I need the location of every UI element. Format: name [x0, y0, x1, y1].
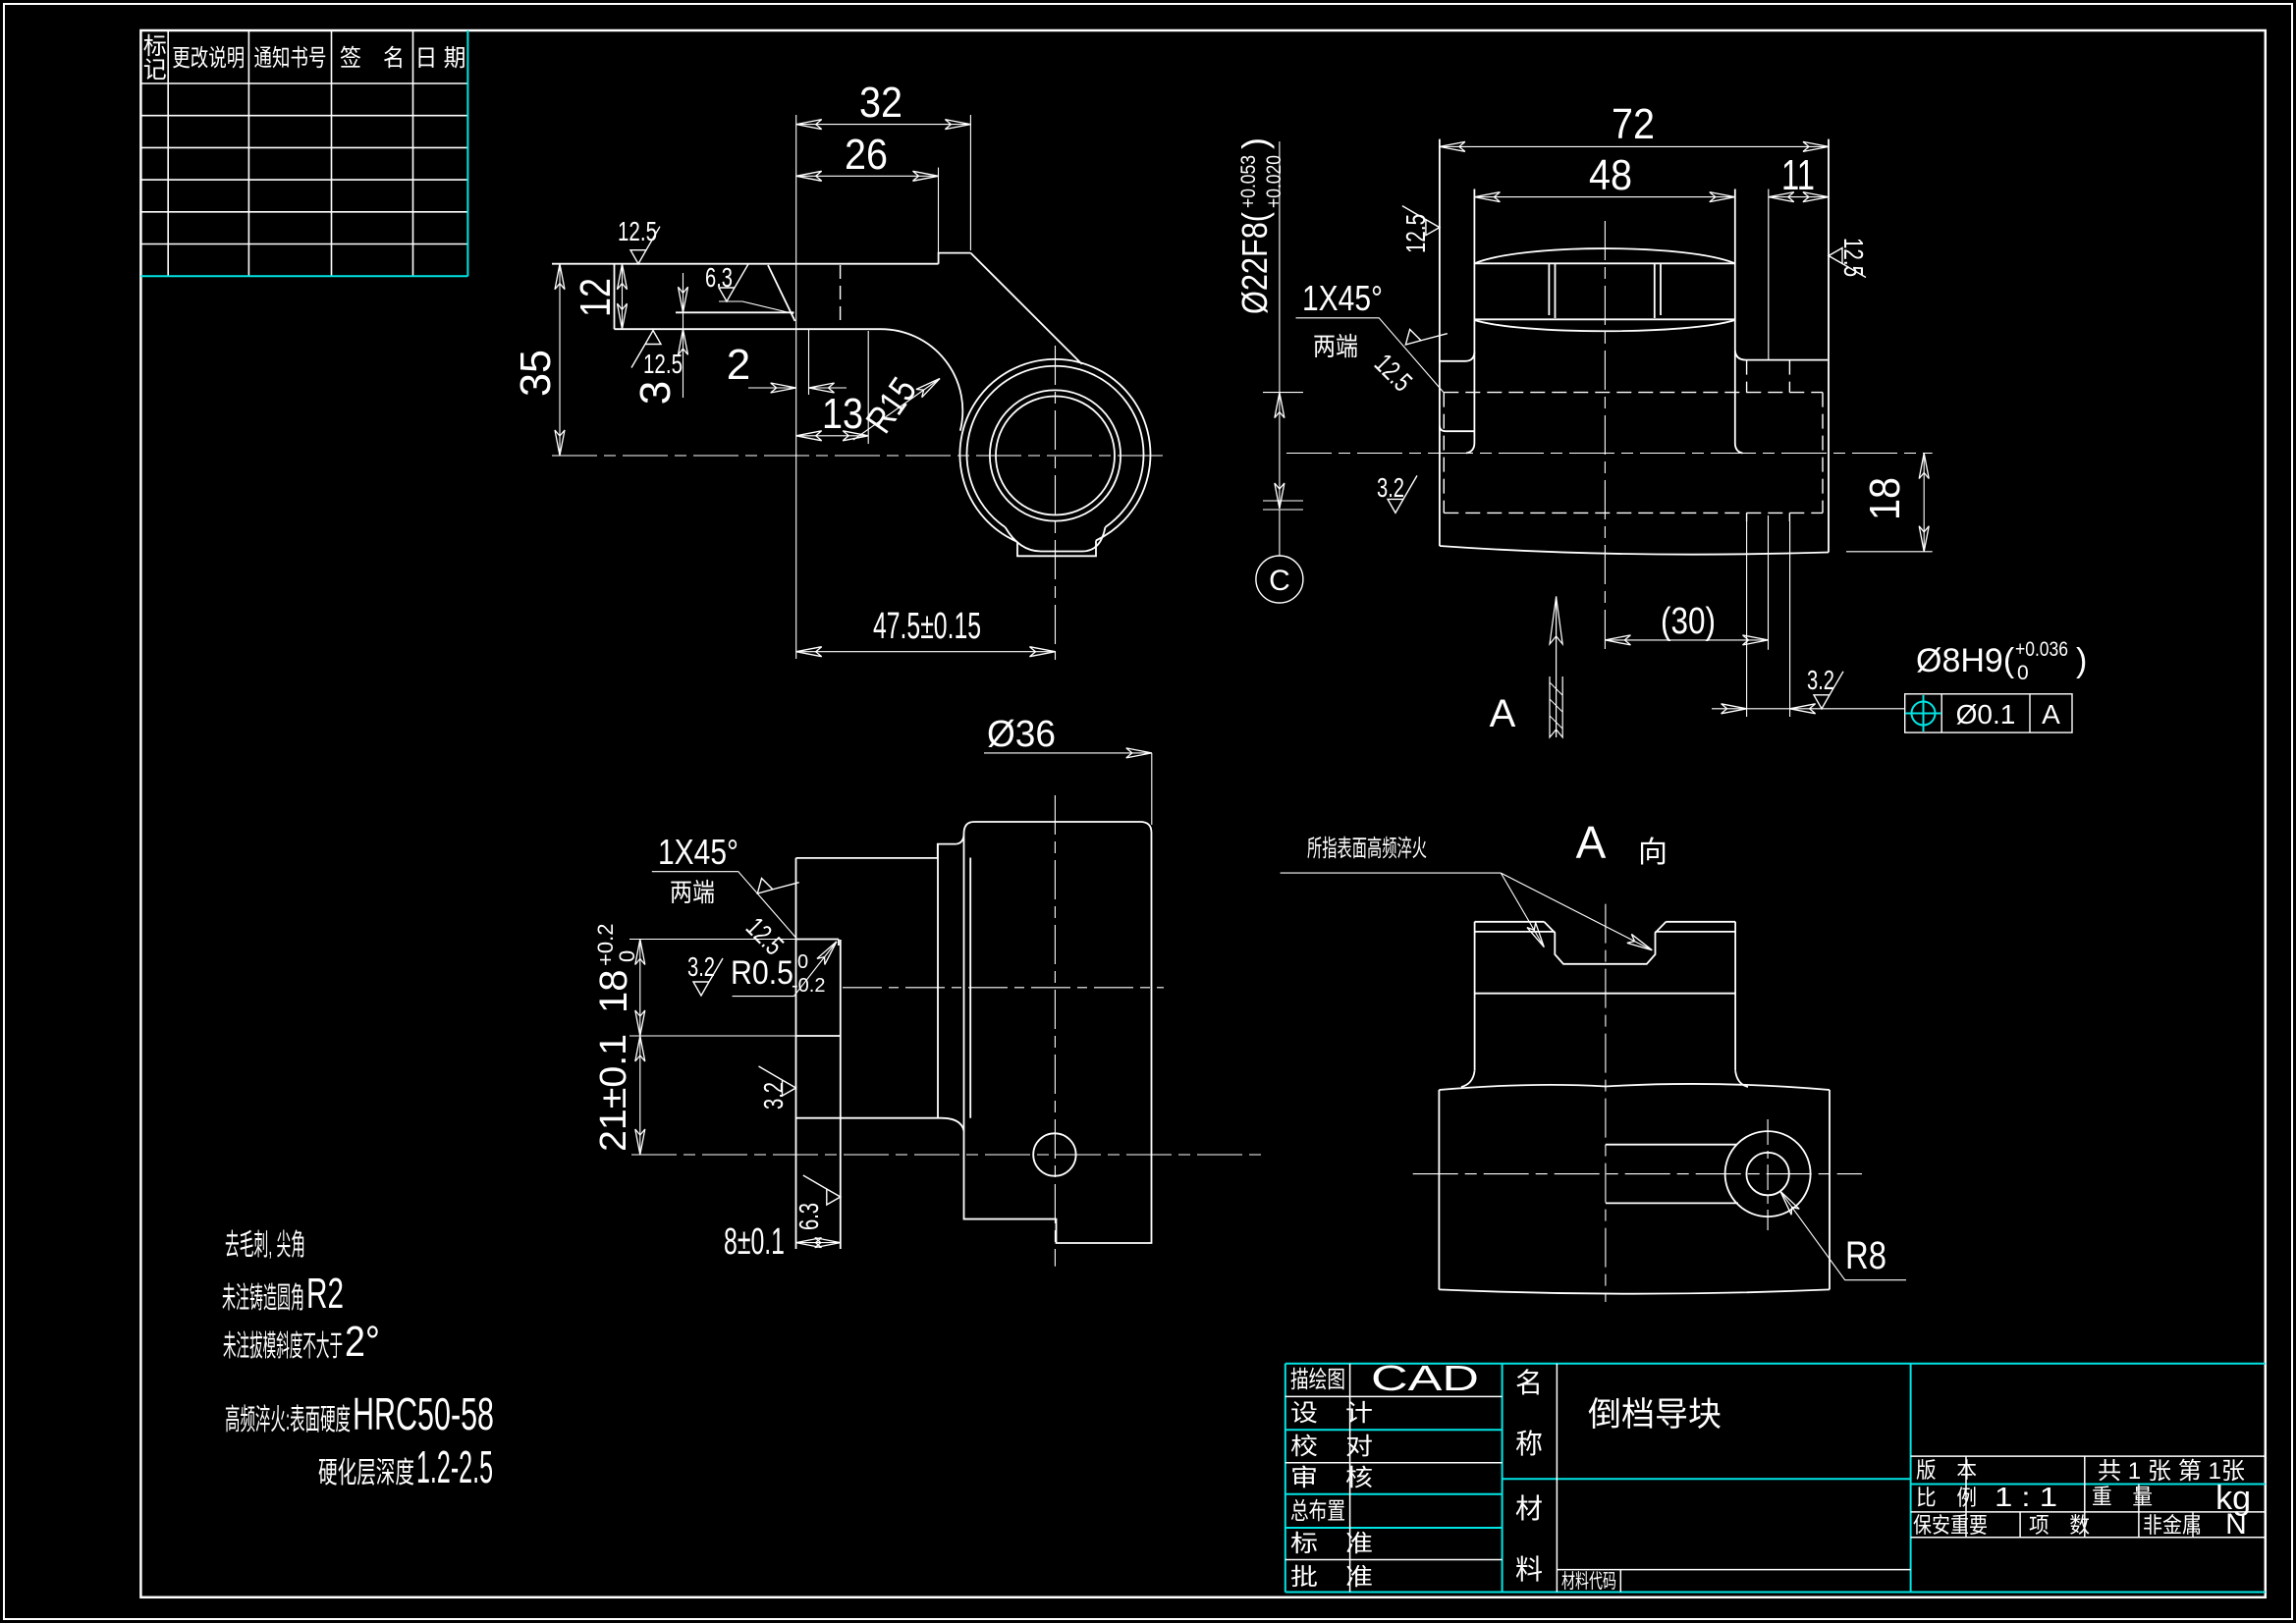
wire: inverted crown	[1474, 320, 1734, 331]
svg-text:12.5: 12.5	[1838, 238, 1869, 277]
wire: cylinder crown	[1474, 248, 1734, 263]
roughness 3.2 left edge view3	[759, 1066, 796, 1096]
svg-text:2: 2	[727, 341, 750, 389]
svg-text:总布置: 总布置	[1290, 1498, 1345, 1525]
roughness 3.2 upper view3	[693, 958, 723, 996]
svg-text:版 本: 版 本	[1916, 1458, 1977, 1483]
wire: o22 ticks	[1263, 393, 1303, 510]
wire: left outer edge	[1439, 139, 1441, 546]
svg-text:1X45°: 1X45°	[1302, 278, 1383, 318]
svg-text:26: 26	[845, 131, 888, 179]
fillet neck-left bottom	[1466, 443, 1474, 454]
svg-text:标 准: 标 准	[1290, 1531, 1373, 1557]
hole o8	[1746, 1153, 1788, 1195]
wire: ext line x810.7	[795, 115, 797, 659]
arrows dim3	[679, 287, 688, 312]
wire: slot top wall	[796, 940, 839, 947]
hidden: hole top	[1444, 392, 1823, 394]
VIEW1 top-left side view	[552, 253, 1150, 557]
svg-text:比 例: 比 例	[1916, 1486, 1977, 1510]
hidden: hole bottom	[1444, 512, 1823, 514]
fillet neck-right to ledge	[1735, 351, 1746, 360]
centerline horizontal boss	[552, 455, 1169, 457]
svg-text:非金属: 非金属	[2143, 1513, 2202, 1538]
arrows dim72	[1440, 141, 1465, 151]
svg-text:21±0.1: 21±0.1	[593, 1034, 634, 1152]
wire: block mid line	[1475, 993, 1736, 995]
arrows 18	[635, 940, 645, 965]
wire: ext line x988.4	[969, 115, 971, 250]
svg-text:72: 72	[1612, 100, 1655, 148]
wire: flange underside left horizontal	[1440, 352, 1475, 361]
svg-text:48: 48	[1589, 151, 1632, 199]
boss chamfer circle	[990, 390, 1121, 520]
wire: slot walls	[1549, 263, 1661, 318]
wire: lower bottom edge	[1439, 1289, 1830, 1293]
wire: ledge top surface	[1746, 359, 1828, 361]
dim 47.5	[796, 651, 1056, 653]
label R8	[1780, 1191, 1906, 1280]
svg-text:47.5±0.15: 47.5±0.15	[873, 606, 981, 647]
node: title block left labels	[1290, 1367, 1373, 1591]
svg-text:所指表面高频淬火: 所指表面高频淬火	[1307, 836, 1427, 862]
wire: step up to ledge	[939, 253, 971, 264]
wire: flares	[1461, 1070, 1748, 1087]
arrows dim2	[771, 383, 796, 393]
position symbol	[1905, 695, 1941, 731]
wire: end-face bottom line	[1474, 318, 1734, 320]
wire: neck right edge	[1734, 189, 1736, 444]
arrows dim30	[1605, 635, 1630, 645]
wire: ext 18 dims	[629, 940, 796, 1037]
dim 18 vertical	[639, 940, 641, 1037]
wire: material-code box	[1557, 1570, 1910, 1593]
dim 32	[796, 124, 971, 126]
arrows dim o8 outside	[1722, 704, 1747, 714]
dim o8	[1712, 708, 1905, 710]
svg-text:R8: R8	[1845, 1234, 1886, 1277]
svg-text:13: 13	[822, 390, 863, 438]
svg-text:18: 18	[592, 970, 635, 1014]
roughness 3.2 on o8 dim	[1814, 672, 1843, 709]
wire: right outer edge	[1828, 139, 1830, 553]
wire: lower top edge	[1439, 1084, 1830, 1090]
wire: left edge	[795, 858, 797, 1249]
svg-text:材料代码: 材料代码	[1561, 1570, 1616, 1593]
arrows o36	[1126, 748, 1152, 758]
VIEW2 top-right front view	[1440, 139, 1829, 555]
svg-text:两端: 两端	[670, 878, 715, 907]
svg-text:3.2: 3.2	[1807, 665, 1834, 695]
wire: top edges	[1475, 921, 1736, 923]
svg-text:日 期: 日 期	[415, 45, 466, 72]
svg-text:1X45°: 1X45°	[658, 832, 738, 872]
boss bottom pad outer	[1017, 541, 1096, 557]
wire: ext o36	[1151, 753, 1153, 825]
svg-text:12.5: 12.5	[1400, 214, 1431, 253]
leader 6.3	[719, 301, 793, 314]
boss arc R8	[1725, 1131, 1811, 1217]
roughness 12.5 right edge	[1829, 248, 1866, 278]
dim 48	[1474, 196, 1734, 198]
arrows dim11	[1769, 192, 1794, 202]
wire: lower rect sides	[1439, 1090, 1830, 1289]
svg-text:向: 向	[1638, 837, 1667, 869]
centerline vertical boss	[1055, 346, 1057, 660]
wire: right section lines	[1911, 1456, 2266, 1538]
svg-text:A: A	[1490, 692, 1516, 735]
arrows 21	[635, 1036, 645, 1061]
wire: 3 dim line	[683, 273, 684, 398]
svg-text:描绘图: 描绘图	[1290, 1367, 1345, 1393]
dim 11	[1769, 196, 1829, 198]
svg-text:0: 0	[797, 951, 808, 973]
arrows 8	[796, 1238, 822, 1248]
svg-text:+0.053: +0.053	[1237, 155, 1260, 208]
wire: groove ramp	[768, 265, 795, 321]
arrows dim13	[796, 431, 822, 441]
arrows dim47.5	[796, 647, 822, 657]
roughness 12.5 left edge	[1402, 206, 1440, 236]
node: right section texts	[1913, 1458, 2202, 1538]
arrows dim48	[1474, 192, 1500, 202]
fillet neck-right bottom	[1735, 443, 1743, 454]
svg-text:12.5: 12.5	[643, 349, 683, 379]
svg-text:12: 12	[572, 278, 620, 317]
roughness 3.2 left	[1388, 475, 1417, 513]
boss bottom pad inner	[1006, 527, 1106, 552]
dim 26	[796, 175, 939, 177]
svg-text:去毛刺, 尖角: 去毛刺, 尖角	[225, 1229, 305, 1262]
wire: block sides	[1475, 922, 1736, 1071]
svg-text:0: 0	[2017, 662, 2029, 684]
centerline: slab vertical	[1054, 795, 1056, 1267]
svg-text:Ø36: Ø36	[987, 714, 1056, 755]
boss outer circle with bottom pad cut	[959, 359, 1150, 542]
wire: chamfer slant to boss	[970, 253, 1081, 364]
wire: table horizontals	[140, 30, 467, 244]
wire: name/material divider	[1556, 1364, 1558, 1593]
svg-text:名: 名	[1515, 1368, 1543, 1398]
leader 1x45 view3	[652, 872, 796, 938]
svg-text:标: 标	[143, 33, 167, 60]
dim 18	[1923, 454, 1925, 552]
svg-text:): )	[2076, 642, 2087, 679]
wire: table verticals	[140, 30, 412, 276]
tolerance frame	[1905, 694, 2072, 732]
arrow R15 leader	[916, 374, 943, 397]
svg-text:-0.2: -0.2	[792, 975, 825, 997]
wire: 35 dim line	[559, 264, 561, 456]
svg-text:CAD: CAD	[1371, 1358, 1479, 1398]
svg-text:6.3: 6.3	[705, 262, 733, 293]
wire: table cyan edges	[140, 30, 467, 276]
centerline: slot axis	[843, 987, 1164, 989]
svg-text:+0.020: +0.020	[1263, 155, 1285, 208]
svg-text:18: 18	[1861, 477, 1909, 520]
title block	[1285, 1364, 2266, 1593]
wire: bottom edge	[1440, 546, 1829, 555]
wire: slot bottom step	[796, 1035, 841, 1037]
svg-text:32: 32	[859, 79, 902, 127]
roughness 12.5 on leader view3	[752, 861, 799, 908]
arrows dim12	[618, 264, 628, 290]
wire: top surface	[796, 857, 939, 859]
svg-text:设 计: 设 计	[1290, 1400, 1373, 1427]
dim 2	[748, 387, 847, 389]
svg-text:更改说明: 更改说明	[172, 45, 245, 72]
wire: left edge	[614, 264, 616, 330]
VIEW4 A-direction view	[1439, 922, 1830, 1294]
wire: end-face top line	[1474, 262, 1734, 264]
dim o36	[984, 752, 1152, 754]
svg-text:Ø22F8(: Ø22F8(	[1234, 212, 1275, 314]
wire: flange underside left + fillet	[1440, 426, 1475, 432]
arrows dim32	[796, 120, 822, 130]
svg-text:3: 3	[631, 381, 680, 405]
wire: chamfer line	[1475, 931, 1736, 933]
wire: 12 dim line	[622, 264, 624, 330]
wire: ext 13dim	[867, 331, 869, 444]
wire: ext 11 left	[1768, 189, 1770, 360]
svg-text:A: A	[2042, 699, 2060, 730]
hidden hole lines	[1444, 360, 1823, 521]
centerline: vertical mid	[1604, 221, 1606, 650]
wire: mid vertical b	[969, 858, 971, 1118]
svg-text:C: C	[1269, 565, 1290, 597]
dim 72	[1440, 145, 1829, 147]
svg-text:两端: 两端	[1313, 332, 1358, 361]
leader R0.5	[733, 942, 837, 997]
VIEW3 bottom-left view	[796, 822, 1152, 1249]
hole o8 circle	[1033, 1133, 1075, 1175]
svg-text:A: A	[1576, 817, 1607, 868]
wire: ext line x955.5	[938, 168, 940, 252]
svg-text:1 : 1: 1 : 1	[1995, 1482, 2057, 1512]
dim 21 vertical	[639, 1036, 641, 1155]
centerline: hole vertical	[1767, 1119, 1769, 1230]
dim 13	[796, 435, 869, 437]
hidden groove line dashed	[840, 265, 842, 324]
svg-text:+0.036: +0.036	[2015, 638, 2068, 661]
arrows dim35	[555, 264, 565, 290]
wire: notch right edge	[840, 940, 842, 1249]
node: name/material column	[1515, 1368, 1543, 1585]
svg-text:3.2: 3.2	[1377, 472, 1404, 503]
svg-text:Ø8H9(: Ø8H9(	[1916, 642, 2015, 679]
boss slab outline	[957, 822, 1152, 1243]
svg-text:35: 35	[512, 350, 560, 397]
svg-text:校 对: 校 对	[1290, 1434, 1373, 1460]
svg-text:保安重要: 保安重要	[1913, 1513, 1988, 1538]
centerline: view4 vertical	[1605, 904, 1607, 1302]
svg-text:R0.5: R0.5	[731, 954, 793, 992]
roughness 6.3 view3	[803, 1175, 841, 1205]
leader R15	[853, 379, 940, 441]
hole circle	[996, 397, 1115, 515]
svg-text:审 核: 审 核	[1290, 1465, 1373, 1491]
roughness 12.5 under step	[631, 331, 661, 368]
svg-text:6.3: 6.3	[793, 1203, 824, 1230]
boss second circle	[967, 366, 1144, 527]
roughness 12.5 on top surface	[630, 227, 660, 264]
svg-text:Ø0.1: Ø0.1	[1956, 699, 2016, 730]
hidden: hole right end	[1822, 393, 1824, 514]
svg-text:): )	[1234, 137, 1275, 149]
roughness 12.5 on 1x45 leader	[1400, 312, 1448, 359]
dim 8	[796, 1242, 841, 1244]
wire: ext 18 bottom	[1846, 551, 1933, 553]
svg-text:项 数: 项 数	[2029, 1513, 2090, 1538]
revision table	[140, 30, 467, 276]
svg-text:0: 0	[615, 950, 639, 962]
svg-text:3.2: 3.2	[687, 951, 715, 982]
svg-text:3.2: 3.2	[758, 1082, 789, 1109]
node: revision table headers	[143, 33, 466, 83]
svg-text:批 准: 批 准	[1290, 1564, 1373, 1591]
label o22F8 vertical	[1234, 137, 1285, 314]
arrows dim18	[1919, 454, 1929, 479]
fillet R15	[881, 329, 962, 431]
wire: ext 30 right	[1768, 515, 1770, 650]
svg-text:材: 材	[1515, 1493, 1543, 1524]
hidden: hole left end	[1443, 393, 1445, 514]
dim 30	[1605, 639, 1768, 641]
wire: slab shelf	[964, 1218, 1057, 1220]
centerline: hole axis	[631, 1154, 1265, 1156]
roughness 6.3 groove	[719, 264, 748, 301]
svg-text:11: 11	[1781, 151, 1815, 199]
arrows dim26	[796, 171, 822, 181]
wire: step surface	[615, 328, 882, 330]
svg-text:重 量: 重 量	[2092, 1485, 2153, 1509]
svg-text:通知书号: 通知书号	[254, 45, 327, 72]
wire: notch	[1544, 922, 1666, 964]
wire: groove bottom line	[676, 311, 794, 313]
svg-text:记: 记	[143, 57, 167, 83]
wire: title block cyan outline	[1285, 1364, 2266, 1593]
svg-text:N: N	[2225, 1508, 2247, 1541]
wire: ext 2dim	[808, 329, 810, 395]
wire: mid vertical a	[938, 844, 957, 1118]
hidden: small hole sides	[1747, 360, 1790, 521]
datum C	[1256, 556, 1303, 603]
wire: block bottom + fillet	[796, 1118, 964, 1131]
section arrow A	[1556, 596, 1558, 737]
wire: neck left edge	[1473, 189, 1475, 444]
svg-text:称: 称	[1515, 1429, 1543, 1459]
svg-text:12.5: 12.5	[618, 216, 657, 246]
svg-text:料: 料	[1515, 1554, 1543, 1585]
centerline: hole axis	[1286, 453, 1933, 455]
svg-text:倒档导块: 倒档导块	[1588, 1396, 1722, 1434]
svg-text:8±0.1: 8±0.1	[724, 1221, 785, 1263]
wire: title block left-table white lines	[1285, 1364, 1503, 1593]
arrow R0.5 leader	[817, 939, 841, 965]
wire: top surface	[552, 263, 939, 265]
centerline: view4 axis	[1413, 1173, 1862, 1175]
svg-text:签 名: 签 名	[340, 45, 405, 72]
wire: ext o8	[1747, 521, 1790, 717]
svg-text:(30): (30)	[1661, 601, 1716, 642]
wire: o22 dim line vertical	[1279, 141, 1281, 509]
wire: ledge lines	[1606, 1145, 1738, 1204]
